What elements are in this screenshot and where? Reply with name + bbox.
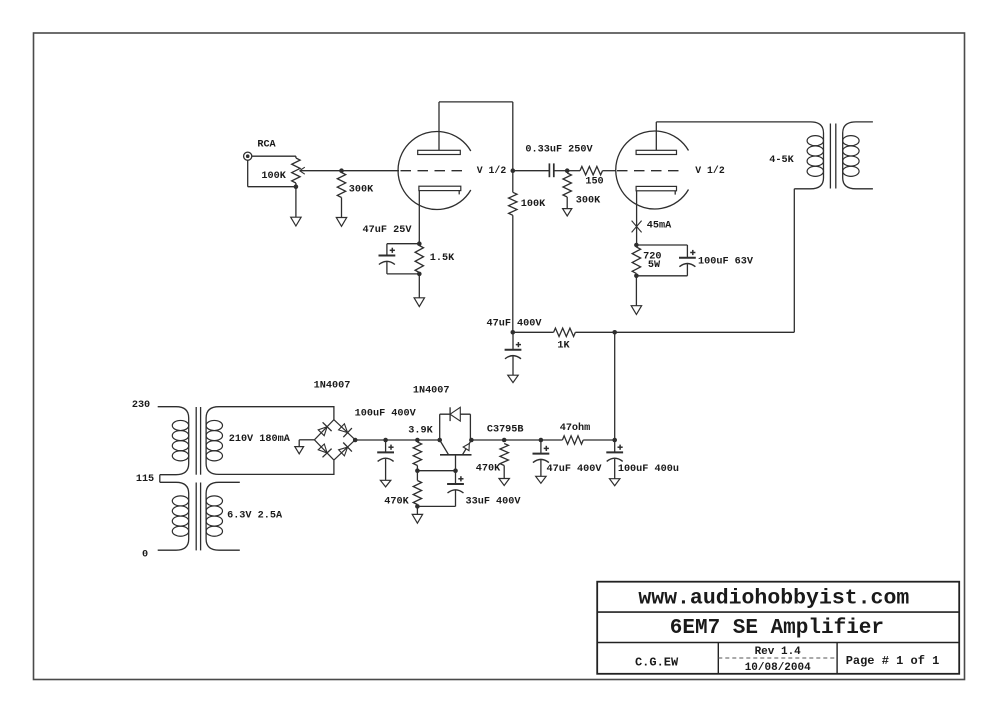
svg-text:Rev 1.4: Rev 1.4 [755, 646, 802, 658]
svg-text:RCA: RCA [257, 139, 276, 150]
svg-text:1N4007: 1N4007 [314, 380, 351, 391]
svg-text:V 1/2: V 1/2 [695, 165, 725, 176]
svg-text:300K: 300K [576, 195, 601, 206]
svg-text:115: 115 [136, 474, 154, 485]
svg-text:100K: 100K [261, 171, 286, 182]
svg-text:100uF 400u: 100uF 400u [618, 464, 679, 475]
svg-text:47uF 400V: 47uF 400V [546, 464, 602, 475]
svg-text:0: 0 [142, 550, 148, 561]
svg-text:1K: 1K [557, 341, 570, 352]
svg-text:47uF 400V: 47uF 400V [486, 318, 542, 329]
svg-text:C3795B: C3795B [487, 425, 524, 436]
svg-text:150: 150 [585, 177, 603, 188]
svg-text:1.5K: 1.5K [430, 253, 455, 264]
svg-text:C.G.EW: C.G.EW [635, 656, 679, 670]
svg-text:4-5K: 4-5K [769, 155, 794, 166]
svg-text:3.9K: 3.9K [408, 426, 433, 437]
svg-text:470K: 470K [476, 463, 501, 474]
svg-text:Page # 1 of 1: Page # 1 of 1 [846, 654, 940, 668]
svg-text:V 1/2: V 1/2 [477, 165, 507, 176]
svg-text:10/08/2004: 10/08/2004 [745, 662, 811, 674]
svg-text:470K: 470K [384, 497, 409, 508]
svg-text:6EM7 SE Amplifier: 6EM7 SE Amplifier [670, 617, 884, 640]
svg-text:0.33uF 250V: 0.33uF 250V [525, 145, 593, 156]
svg-text:47uF 25V: 47uF 25V [363, 225, 413, 236]
svg-text:47ohm: 47ohm [560, 422, 591, 434]
svg-text:100uF 63V: 100uF 63V [698, 257, 754, 268]
svg-text:230: 230 [132, 400, 150, 411]
svg-text:5W: 5W [648, 260, 661, 271]
svg-text:210V 180mA: 210V 180mA [229, 434, 291, 445]
svg-text:100K: 100K [521, 199, 546, 210]
svg-text:1N4007: 1N4007 [413, 386, 450, 397]
svg-text:www.audiohobbyist.com: www.audiohobbyist.com [638, 586, 909, 610]
svg-text:33uF 400V: 33uF 400V [465, 497, 521, 508]
svg-text:100uF 400V: 100uF 400V [355, 409, 417, 420]
svg-text:6.3V 2.5A: 6.3V 2.5A [227, 511, 283, 522]
svg-text:300K: 300K [349, 185, 374, 196]
svg-text:45mA: 45mA [647, 221, 672, 232]
